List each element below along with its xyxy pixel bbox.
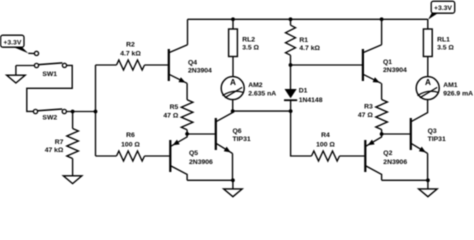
svg-text:SW2: SW2: [42, 115, 57, 122]
wire SW2 to node column: [66, 110, 95, 113]
svg-text:100 Ω: 100 Ω: [121, 142, 140, 149]
junction R5/Q5/Q6: [185, 132, 189, 136]
transistor Q1 (2N3904 NPN): [363, 45, 382, 84]
resistor R3: [376, 83, 388, 134]
svg-text:Q5: Q5: [189, 150, 198, 157]
junction rail/RL2: [231, 17, 235, 21]
ground (R7): [63, 176, 82, 184]
SW2 label: [42, 115, 57, 122]
svg-text:2N3904: 2N3904: [383, 67, 407, 74]
svg-text:Q3: Q3: [428, 128, 437, 135]
svg-text:926.9 mA: 926.9 mA: [443, 90, 473, 97]
ammeter AM2: [221, 77, 244, 112]
wire AM2 to D1 node: [233, 110, 291, 113]
diode D1 (1N4148): [284, 65, 297, 111]
svg-text:1N4148: 1N4148: [299, 97, 323, 104]
svg-text:SW1: SW1: [42, 71, 57, 78]
wire SW1 common to SW2: [27, 65, 72, 111]
svg-text:R7: R7: [55, 139, 64, 146]
svg-text:47 kΩ: 47 kΩ: [45, 147, 64, 154]
wire Q2 collector to Q3 emitter: [382, 179, 428, 182]
wire Q6 emitter down: [231, 153, 234, 180]
transistor Q5 (2N3906 PNP): [170, 134, 187, 180]
ground (left of SW1): [7, 66, 26, 84]
D1 label: [299, 87, 323, 104]
R2 label: [120, 41, 141, 57]
R5 label: [163, 104, 178, 119]
resistor RL1: [423, 19, 432, 76]
Q4 label: [188, 59, 212, 74]
svg-text:Q6: Q6: [233, 128, 242, 135]
svg-text:47 Ω: 47 Ω: [163, 113, 178, 120]
svg-text:2N3906: 2N3906: [383, 159, 407, 166]
R6 label: [121, 132, 140, 148]
wire Q5 collector to Q6 emitter: [187, 179, 233, 182]
wire R1 node to Q1 base: [291, 64, 363, 67]
resistor R5: [181, 83, 193, 134]
junction Q5/Q6 ground node: [231, 178, 235, 182]
Q6 label: [233, 128, 251, 143]
svg-text:Q1: Q1: [383, 59, 392, 66]
svg-text:4.7 kΩ: 4.7 kΩ: [299, 45, 320, 52]
R3 label: [358, 104, 373, 119]
transistor Q4 (2N3904 NPN): [169, 45, 188, 84]
svg-text:2N3906: 2N3906: [189, 159, 213, 166]
resistor R7: [67, 112, 79, 176]
ammeter AM1: [416, 77, 439, 100]
Q5 label: [189, 150, 213, 166]
wire to Q3 base: [382, 133, 410, 136]
junction rail/R1: [289, 17, 293, 21]
junction R7 tap: [71, 110, 75, 114]
transistor Q6 (TIP31 NPN): [216, 111, 233, 153]
svg-text:R4: R4: [321, 132, 330, 139]
junction AM2 bottom: [231, 109, 235, 113]
RL2 label: [242, 37, 259, 52]
svg-text:AM2: AM2: [248, 82, 263, 89]
svg-text:2N3904: 2N3904: [188, 68, 212, 75]
ground (Q6 emitter): [224, 180, 243, 196]
svg-text:RL1: RL1: [437, 37, 450, 44]
resistor R1: [286, 19, 296, 65]
wire D1 node down to R4: [291, 111, 312, 156]
transistor Q2 (2N3906 PNP): [365, 134, 381, 180]
svg-text:2.635 nA: 2.635 nA: [248, 90, 276, 97]
Q3 label: [428, 128, 446, 143]
junction Q2/Q3 ground node: [426, 178, 430, 182]
resistor R2: [96, 60, 168, 70]
Q2 label: [383, 150, 407, 166]
R7 label: [45, 139, 64, 154]
svg-text:TIP31: TIP31: [233, 136, 251, 143]
wire Q3 emitter down: [426, 153, 429, 180]
wire +3.3V to SW1 throw: [28, 52, 36, 55]
switch SW2: [33, 109, 66, 114]
svg-text:Q2: Q2: [383, 150, 392, 157]
junction R1/Q1/D1: [289, 63, 293, 67]
resistor RL2: [229, 19, 238, 76]
junction D1/AM2/R4: [289, 109, 293, 113]
svg-text:3.5 Ω: 3.5 Ω: [437, 45, 454, 52]
power +3.3V (left): [1, 35, 29, 53]
power +3.3V (right): [428, 1, 455, 19]
svg-text:D1: D1: [299, 87, 308, 94]
svg-text:RL2: RL2: [242, 37, 255, 44]
R4 label: [316, 132, 335, 148]
svg-text:AM1: AM1: [443, 82, 458, 89]
wire Q1 collector to rail: [380, 19, 383, 45]
wire node column vertical: [94, 65, 97, 156]
svg-text:R5: R5: [170, 104, 179, 111]
svg-text:47 Ω: 47 Ω: [358, 112, 373, 119]
wire ground to SW1 throw: [16, 64, 34, 67]
svg-text:A: A: [230, 78, 236, 87]
junction rail/Q1: [380, 17, 384, 21]
resistor R6: [96, 151, 170, 161]
ground (Q3 emitter): [419, 180, 438, 196]
svg-text:A: A: [425, 78, 431, 87]
svg-text:+3.3V: +3.3V: [3, 39, 21, 46]
svg-text:R1: R1: [299, 37, 308, 44]
Q1 label: [383, 59, 407, 74]
AM1 label: [443, 82, 473, 97]
SW1 label: [42, 71, 57, 78]
svg-text:4.7 kΩ: 4.7 kΩ: [120, 51, 141, 58]
top supply rail: [188, 18, 428, 21]
junction R3/Q2/Q3: [380, 132, 384, 136]
svg-text:R3: R3: [364, 104, 373, 111]
svg-text:+3.3V: +3.3V: [434, 5, 452, 12]
switch SW1: [34, 51, 66, 67]
svg-text:100 Ω: 100 Ω: [316, 142, 335, 149]
resistor R4: [312, 151, 365, 161]
transistor Q3 (TIP31 NPN): [411, 100, 428, 154]
junction node column: [94, 110, 98, 114]
R1 label: [299, 37, 320, 52]
wire to Q6 base: [187, 133, 215, 136]
svg-text:R6: R6: [126, 132, 135, 139]
wire Q4 collector to rail: [186, 19, 189, 45]
svg-text:R2: R2: [126, 41, 135, 48]
svg-text:3.5 Ω: 3.5 Ω: [242, 45, 259, 52]
svg-text:Q4: Q4: [188, 59, 197, 66]
svg-text:TIP31: TIP31: [428, 136, 446, 143]
AM2 label: [248, 82, 276, 97]
RL1 label: [437, 37, 454, 52]
